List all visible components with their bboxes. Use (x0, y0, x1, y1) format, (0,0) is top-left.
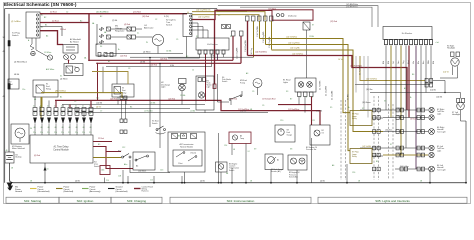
wire red 22 second (40, 22, 89, 24)
wire labels cluster C (230, 72, 322, 122)
svg-text:(14) Org/White Dk: (14) Org/White Dk (196, 9, 211, 12)
svg-text:C16: C16 (352, 172, 355, 174)
wire right return (465, 121, 467, 184)
svg-text:(14) Red/White: (14) Red/White (255, 51, 267, 54)
label b3 (229, 164, 239, 172)
svg-text:(14) Blk: (14) Blk (240, 111, 246, 113)
svg-text:(12) Red: (12) Red (268, 99, 275, 101)
coolant gauge box (229, 132, 251, 144)
voltage regulator rail (96, 24, 98, 45)
wire red bus mid b (278, 104, 312, 106)
oil pressure B2 box (288, 155, 307, 179)
svg-text:S01: Starting: S01: Starting (24, 199, 42, 203)
wire olive org/blk (272, 50, 384, 132)
svg-text:A01 White: A01 White (46, 68, 54, 71)
wire blk bus upper (130, 56, 254, 58)
svg-text:Lights: Lights (283, 81, 288, 84)
manifold heater A2 box (63, 45, 78, 54)
svg-text:B+: B+ (348, 107, 350, 109)
svg-text:C5: C5 (176, 39, 178, 41)
svg-text:14 Yel/Wh: 14 Yel/Wh (360, 65, 362, 75)
svg-text:C2: C2 (66, 12, 68, 14)
svg-text:C1: C1 (75, 105, 77, 107)
svg-text:(Accessory): (Accessory) (90, 190, 101, 193)
label lt blue (400, 165, 409, 168)
wire olive cross (41, 93, 122, 98)
svg-text:3: 3 (48, 113, 49, 115)
a3 inner (173, 150, 202, 166)
wire relay drop (307, 30, 314, 78)
wire krh b (440, 66, 458, 78)
svg-text:B1: B1 (45, 25, 47, 27)
svg-text:Light: Light (437, 112, 442, 115)
svg-text:4 Blk: 4 Blk (170, 65, 174, 67)
svg-text:(16) Brn: (16) Brn (366, 89, 373, 91)
svg-text:(4) Blk: (4) Blk (320, 181, 325, 183)
svg-text:X8: X8 (290, 149, 292, 151)
module ground drop (44, 163, 49, 184)
wire pin v2 olive (41, 97, 43, 108)
connector box A01 (100, 166, 110, 175)
svg-text:30: 30 (30, 128, 32, 130)
wire key to plug (36, 38, 48, 57)
label 4 white k1 (60, 77, 68, 80)
svg-text:X5: X5 (330, 107, 332, 109)
svg-text:(10) Red/White: (10) Red/White (96, 11, 109, 14)
svg-text:(16) Grn: (16) Grn (397, 153, 404, 155)
svg-text:Turn Light: Turn Light (437, 168, 446, 171)
svg-text:A5: A5 (404, 87, 406, 90)
wire row1 a (360, 109, 428, 111)
lamp E5a (429, 145, 434, 150)
connector dashed pair X7 (389, 104, 394, 180)
plow lamp relay 2 (350, 149, 372, 164)
svg-text:B9: B9 (376, 161, 378, 163)
pin name labels (33, 132, 92, 134)
label white/black (14, 61, 27, 64)
wire sensors gnd b (245, 162, 272, 184)
wire red riser label (84, 57, 87, 60)
svg-text:B2: B2 (80, 20, 82, 22)
svg-text:(14) Yel/Blk: (14) Yel/Blk (362, 146, 371, 148)
wire k2 feed (68, 60, 98, 65)
svg-text:Switch: Switch (94, 165, 100, 168)
lamp E5b (429, 152, 434, 157)
svg-text:C3: C3 (74, 101, 76, 103)
wire kf p1 (385, 46, 387, 111)
svg-text:C1e: C1e (61, 132, 64, 134)
label 14 black (138, 171, 146, 173)
wire red drop S2 (213, 20, 216, 89)
svg-text:C1d: C1d (54, 132, 57, 134)
svg-text:B2: B2 (44, 17, 46, 19)
light switch S2 box (183, 14, 192, 37)
svg-text:(14) Blk: (14) Blk (316, 111, 322, 113)
svg-text:Electrical Schematic (SN 76500: Electrical Schematic (SN 76500-) (4, 2, 77, 7)
svg-text:(12) Red/White: (12) Red/White (288, 108, 299, 111)
kit flasher pin labels (388, 59, 430, 64)
label red/white (255, 51, 362, 68)
wire blk bus mid2 (69, 108, 190, 110)
svg-text:Regulator: Regulator (115, 30, 125, 33)
module pin stubs (35, 124, 91, 135)
label S2 (166, 19, 176, 27)
svg-text:A4: A4 (46, 35, 48, 38)
svg-text:(X) A-Lamp: (X) A-Lamp (288, 14, 297, 17)
svg-text:(4) Red: (4) Red (124, 24, 130, 26)
wire kf p3 (395, 46, 397, 132)
wire reg to alt a (111, 28, 128, 30)
wire k2 drop2 (118, 97, 126, 105)
plug X1 circle (47, 55, 52, 60)
svg-text:C14 Red/Wh: C14 Red/Wh (245, 39, 247, 52)
wire s3 down2 (0, 0, 1, 1)
connector pair b (120, 119, 127, 123)
svg-text:(4) White: (4) White (143, 50, 151, 53)
label a1 yel/blue (55, 90, 66, 93)
svg-text:(10) Red: (10) Red (142, 16, 149, 18)
wire bundle olive a (253, 21, 255, 57)
section S05 (318, 197, 467, 203)
connector pair c (120, 130, 127, 134)
wire kf p7 purple (415, 46, 417, 170)
svg-text:(Switched): (Switched) (64, 190, 74, 193)
wire tan switch top 1 (188, 12, 265, 20)
svg-text:B+: B+ (118, 49, 120, 51)
svg-text:Voltage: Voltage (115, 27, 123, 30)
label yel/white (286, 36, 297, 39)
svg-text:12 Blk: 12 Blk (309, 36, 314, 38)
svg-text:1: 1 (34, 113, 35, 115)
svg-text:Switch: Switch (229, 169, 234, 172)
svg-text:Harness: Harness (142, 190, 149, 193)
svg-text:B4: B4 (130, 107, 132, 109)
svg-text:22 Red: 22 Red (52, 20, 58, 22)
wire gnd 154 (150, 176, 154, 183)
wire pin v7 (76, 109, 78, 112)
label M1 voltage regulator (115, 26, 125, 33)
svg-text:A4a: A4a (124, 163, 127, 166)
svg-text:0 Red: 0 Red (54, 108, 56, 114)
key switch S1 box (26, 12, 40, 38)
svg-text:C4 Blk: C4 Blk (166, 51, 171, 53)
kit flasher 2 pins (385, 40, 433, 45)
wire red heater (40, 31, 63, 45)
wire olive yel/white (260, 39, 351, 113)
label M3 (240, 80, 247, 84)
svg-text:J1 White: J1 White (44, 51, 51, 54)
row3 pins b (396, 153, 425, 157)
wire red long feed (248, 56, 408, 111)
section S04 (170, 197, 311, 203)
svg-text:12 Blk: 12 Blk (210, 56, 215, 58)
label 12 red hz (268, 8, 276, 10)
wire sensors gnd c (296, 138, 311, 184)
wire krh a (452, 66, 454, 75)
svg-text:C3: C3 (128, 68, 130, 70)
svg-text:12: 12 (192, 69, 194, 71)
wire blk/white top run B (240, 7, 372, 27)
wire tan long (360, 56, 425, 81)
svg-text:C14 Yel/Wh: C14 Yel/Wh (257, 25, 259, 37)
svg-text:S02: Ignition: S02: Ignition (77, 199, 94, 203)
pto light H3 box (196, 76, 214, 110)
row2 pins (396, 130, 425, 134)
svg-text:L1 Handler: L1 Handler (144, 111, 153, 113)
wire labels cluster A (30, 12, 232, 67)
rotated wire labels mid (39, 65, 362, 114)
svg-text:14 Org/Wh: 14 Org/Wh (325, 85, 328, 96)
svg-text:(14) Black: (14) Black (138, 171, 146, 173)
svg-text:C1b: C1b (40, 132, 43, 134)
wire flasher pin5 (223, 54, 225, 57)
wire switch pin drop 1 (192, 23, 198, 38)
svg-text:X4: X4 (100, 46, 102, 48)
label riser (3, 37, 6, 98)
svg-text:(12) Red: (12) Red (168, 99, 175, 101)
svg-text:Kit Flasher: Kit Flasher (207, 43, 218, 46)
hazard connector (303, 22, 314, 30)
wire pin v9 red (90, 100, 92, 107)
wire flasher pin2 red (205, 54, 207, 101)
svg-text:(12) Red: (12) Red (230, 99, 237, 101)
label j1 white (44, 51, 51, 54)
wire bundle red c (247, 21, 249, 56)
plow lamp relay 1 (350, 111, 372, 126)
svg-text:4B: 4B (233, 149, 235, 151)
wire gray v368 (367, 56, 369, 118)
wire pin v8 (83, 113, 85, 117)
wire white 4 (105, 53, 183, 55)
label 22 red 2 (133, 12, 141, 14)
svg-text:(A1) Yel/Blue: (A1) Yel/Blue (55, 90, 66, 93)
svg-text:S03: Charging: S03: Charging (127, 199, 147, 203)
wire plow2 out (372, 155, 383, 157)
label kit right headlight (447, 44, 455, 49)
svg-text:4B: 4B (420, 181, 422, 183)
wire switch pin drop 3 (187, 30, 209, 58)
regulator pin box 1 (107, 27, 111, 31)
svg-text:(12) Red: (12) Red (110, 99, 117, 101)
label A01 white (46, 68, 54, 71)
svg-text:C9: C9 (262, 105, 264, 107)
wire a3 gnd (184, 133, 220, 184)
svg-text:(14) Blk: (14) Blk (430, 90, 436, 92)
label s8 sender (271, 169, 283, 173)
ground arrow (7, 183, 13, 191)
svg-text:Turn Light: Turn Light (437, 130, 446, 133)
svg-text:(4) Yel/Blue: (4) Yel/Blue (11, 21, 21, 23)
svg-text:(14) Org/Blk: (14) Org/Blk (290, 48, 300, 50)
svg-text:Sender (A2): Sender (A2) (271, 170, 281, 173)
row pin rects at X6 (373, 108, 381, 171)
legend control panel (134, 185, 154, 192)
wire row2 (383, 131, 428, 133)
wire red branch down (88, 14, 90, 61)
label 4 white (143, 50, 151, 53)
svg-text:(16) Blue: (16) Blue (385, 129, 392, 131)
discharge light H2 (179, 79, 187, 91)
flasher pins (198, 50, 225, 54)
wire flasher pin3 (211, 54, 213, 67)
wire red bus upper (89, 59, 233, 61)
svg-text:C08: C08 (118, 176, 121, 178)
wire flasher pin1 (168, 54, 200, 58)
svg-text:Gauge: Gauge (287, 134, 292, 136)
start relay K3 box (112, 84, 134, 97)
svg-text:(0) Red: (0) Red (34, 155, 40, 157)
svg-text:D+: D+ (137, 33, 139, 35)
svg-text:Wht: Wht (427, 60, 430, 64)
wire k1 olive drop (40, 97, 42, 118)
label E4 (437, 164, 446, 171)
label B1 battery (16, 154, 22, 158)
wire cg down a (232, 144, 235, 156)
label pin t (435, 41, 439, 44)
svg-text:4B Blk: 4B Blk (14, 74, 19, 76)
svg-text:C16: C16 (106, 180, 109, 182)
svg-text:Relay: Relay (46, 89, 51, 91)
svg-text:(Unswitched): (Unswitched) (116, 190, 128, 193)
svg-text:Switch (B2): Switch (B2) (289, 176, 298, 179)
wire 14 black (130, 160, 170, 173)
battery B1 (5, 150, 14, 163)
svg-text:Control Module: Control Module (53, 149, 69, 152)
regulator diodes (99, 27, 104, 44)
bundle pin boxes (232, 16, 274, 36)
svg-text:7: 7 (76, 113, 77, 115)
svg-text:0 Red: 0 Red (89, 108, 91, 114)
section S03 (111, 197, 162, 203)
svg-text:(12) Red: (12) Red (120, 56, 127, 58)
svg-text:Relay: Relay (122, 92, 126, 94)
wire red e1 drop (311, 97, 313, 126)
svg-text:X2: X2 (218, 15, 220, 17)
svg-text:K2: K2 (74, 66, 76, 68)
wire s3 down (204, 110, 206, 113)
wire row3 a (360, 147, 428, 149)
svg-text:S05: Lights and Interlocks: S05: Lights and Interlocks (375, 199, 410, 203)
svg-text:C1e: C1e (96, 98, 99, 100)
svg-text:Headlight: Headlight (452, 113, 460, 116)
svg-text:(12) Red: (12) Red (330, 21, 337, 23)
wire pin v6 red (69, 105, 71, 108)
wire e1 pin b (304, 97, 306, 113)
svg-text:Battery: Battery (16, 156, 22, 159)
wire plow1 out (372, 117, 383, 119)
wire pin v1 (34, 96, 36, 108)
key symbol (30, 38, 35, 56)
svg-text:Light: Light (161, 86, 166, 89)
E1 pins (298, 92, 314, 97)
ground stub box G2 (8, 79, 19, 89)
lamp E4 (429, 166, 435, 172)
wire row4 (395, 168, 428, 170)
hazard lamp relay box (272, 10, 313, 20)
svg-text:Kit Flasher: Kit Flasher (402, 32, 413, 35)
wire blk bus mid3 (76, 112, 268, 114)
dot row gnd (429, 182, 431, 184)
legend w1 (15, 187, 22, 194)
alternator G1 (152, 34, 163, 45)
wire row3 b (383, 154, 428, 156)
label A2 (70, 38, 81, 43)
label terminals (28, 15, 43, 43)
wire kf p5 (405, 46, 407, 149)
label S6 (222, 77, 231, 83)
svg-text:C10: C10 (280, 120, 283, 122)
bundle vertical labels (236, 25, 271, 59)
svg-text:X7: X7 (390, 144, 392, 146)
svg-text:C2: C2 (155, 19, 157, 21)
brake switch lower (118, 151, 131, 159)
svg-text:(14) Yel: (14) Yel (443, 72, 449, 74)
svg-text:Switch: Switch (166, 24, 173, 27)
wire hl to lamp (433, 81, 446, 94)
fuse link tick lower (8, 84, 10, 90)
svg-text:14 Yel: 14 Yel (338, 59, 343, 61)
starting motor M1 box (11, 124, 29, 144)
svg-text:A4: A4 (136, 165, 138, 168)
wire blk/white top run A (218, 6, 378, 27)
svg-text:B6: B6 (412, 74, 414, 76)
connector pair a (120, 96, 127, 100)
svg-text:(16) Grn: (16) Grn (397, 108, 404, 110)
svg-text:C15: C15 (150, 180, 153, 182)
svg-text:X6: X6 (384, 101, 386, 103)
fuel sender S8 box (265, 154, 283, 170)
wire blk bus lower (106, 66, 212, 68)
svg-text:(22) Red: (22) Red (133, 12, 141, 14)
label G1 alternator (144, 25, 154, 30)
kit flasher box (196, 38, 229, 50)
lamp E6 (429, 129, 435, 135)
fuel pump M3 (253, 79, 262, 88)
svg-text:5: 5 (62, 113, 63, 115)
wire gnd 128 (127, 176, 129, 183)
svg-text:(4) White: (4) White (60, 77, 68, 80)
svg-text:(14) Blk: (14) Blk (96, 103, 102, 105)
wire h2 down (181, 91, 183, 105)
hl connector (425, 79, 433, 88)
svg-text:A1 Time Delay: A1 Time Delay (54, 146, 70, 149)
svg-text:C1c: C1c (47, 132, 50, 134)
label org/white (196, 9, 211, 19)
wire red k2 drop (98, 63, 104, 92)
wire v150 (149, 57, 150, 127)
svg-text:S7: S7 (230, 36, 232, 38)
wire blk stub B1 (40, 25, 62, 36)
label E1 (283, 80, 290, 84)
svg-text:22 Red: 22 Red (50, 12, 56, 14)
svg-text:(14) Org/White: (14) Org/White (288, 42, 300, 45)
svg-text:S10: S10 (118, 151, 121, 153)
wire blk hl (355, 84, 430, 86)
svg-text:16 Red: 16 Red (410, 118, 416, 120)
ground bus (10, 180, 467, 183)
wire flasher pin4 (217, 54, 219, 60)
svg-text:14 Org/Bk: 14 Org/Bk (331, 90, 334, 100)
svg-text:(14) Yel/White: (14) Yel/White (286, 36, 297, 39)
seat switch S5 (156, 126, 166, 134)
svg-text:(14) Yel/White: (14) Yel/White (366, 78, 377, 81)
wire battery to ground (10, 163, 13, 180)
svg-text:A6: A6 (332, 164, 334, 167)
wire v160 (159, 63, 160, 148)
svg-text:B8: B8 (178, 136, 180, 138)
svg-text:Neutral Module: Neutral Module (180, 146, 193, 149)
svg-text:C6: C6 (47, 169, 49, 171)
